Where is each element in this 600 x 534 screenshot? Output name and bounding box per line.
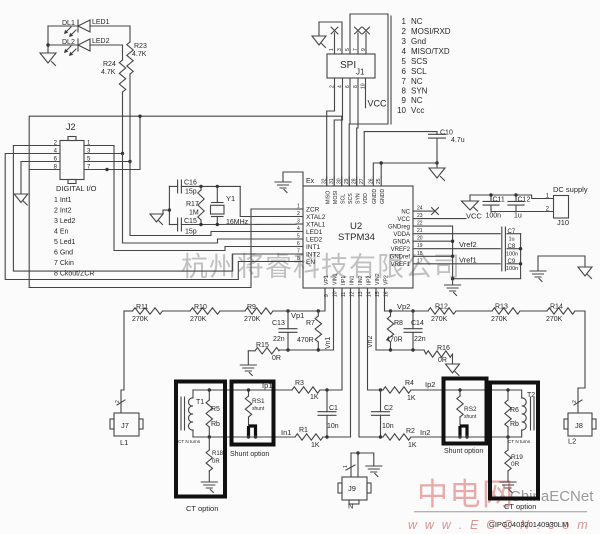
- svg-text:CT option: CT option: [186, 504, 218, 513]
- wire ZCR net: [29, 209, 296, 288]
- U2 left pin 3 XTAL1: [296, 223, 303, 225]
- svg-text:100n: 100n: [506, 251, 518, 257]
- svg-text:C2: C2: [384, 405, 393, 412]
- svg-text:R17: R17: [186, 201, 199, 208]
- wire Ip1 row: [193, 389, 292, 391]
- wire Vp1 node: [273, 288, 325, 311]
- svg-text:XTAL1: XTAL1: [306, 222, 326, 229]
- resistor R5 Rb: [208, 390, 210, 400]
- resistor R6 Rb: [507, 390, 509, 400]
- wire GNDD pins to ground: [373, 163, 437, 177]
- svg-text:Vref2: Vref2: [459, 240, 477, 249]
- U2 left pin 2 XTAL2: [296, 216, 303, 218]
- resistor R1: [295, 434, 323, 440]
- U2 bottom pin 14 IIP2: [367, 288, 369, 297]
- svg-text:Shunt option: Shunt option: [230, 451, 269, 458]
- resistor RS2: [459, 390, 461, 396]
- svg-text:270K: 270K: [491, 316, 508, 323]
- svg-text:DL1: DL1: [62, 20, 75, 27]
- wire GNDref: [420, 255, 453, 257]
- resistor R9: [220, 310, 245, 312]
- wire Vn2 row: [376, 288, 424, 350]
- wire J1 pin2: [327, 78, 335, 186]
- svg-text:CT N turns: CT N turns: [508, 439, 531, 444]
- svg-text:2: 2: [402, 27, 407, 36]
- svg-text:2 Int2: 2 Int2: [54, 208, 72, 215]
- capacitor C2: [380, 390, 382, 412]
- U2 right pin 23 VCC: [413, 218, 420, 220]
- svg-text:In1: In1: [281, 428, 291, 437]
- svg-text:VCC: VCC: [466, 211, 482, 220]
- svg-text:VP1: VP1: [324, 275, 330, 285]
- LED DL1: [48, 25, 77, 27]
- svg-text:VDD: VDD: [363, 193, 369, 204]
- svg-text:29: 29: [344, 178, 350, 184]
- shunt symbol RS2: [459, 417, 461, 425]
- connector J8: [568, 413, 592, 436]
- svg-text:R10: R10: [194, 304, 207, 311]
- U2 top pin 25 GNDD: [380, 177, 382, 186]
- connector J1 SPI: [327, 54, 375, 78]
- ground U2 top-left: [283, 172, 303, 186]
- svg-text:R15: R15: [256, 342, 269, 349]
- capacitor C14: [412, 311, 414, 329]
- svg-text:7 Ckin: 7 Ckin: [54, 260, 74, 267]
- U2 top pin 32 MISO: [326, 177, 328, 186]
- svg-text:3 Led2: 3 Led2: [54, 218, 76, 225]
- LED DL2: [48, 44, 77, 46]
- svg-text:1M: 1M: [189, 210, 199, 217]
- svg-text:270K: 270K: [190, 316, 207, 323]
- wire to J10 pin2: [491, 211, 554, 213]
- svg-text:N: N: [348, 502, 353, 511]
- svg-text:0R: 0R: [272, 355, 281, 362]
- svg-text:R7: R7: [306, 320, 315, 327]
- svg-text:5 Led1: 5 Led1: [54, 239, 76, 246]
- svg-text:R12: R12: [435, 304, 448, 311]
- svg-text:1: 1: [329, 48, 335, 51]
- transformer T2 coil: [522, 398, 527, 430]
- svg-text:R14: R14: [550, 304, 563, 311]
- svg-text:U2: U2: [350, 221, 362, 232]
- Shunt option box RS2: [444, 379, 487, 444]
- svg-text:270K: 270K: [244, 316, 261, 323]
- capacitor C9: [507, 263, 521, 265]
- wire LED common: [47, 26, 49, 52]
- ground right rail: [452, 279, 454, 284]
- svg-text:IIP2: IIP2: [366, 276, 372, 285]
- svg-text:ZCR: ZCR: [306, 207, 320, 214]
- resistor R23: [129, 26, 131, 42]
- svg-text:Vn1: Vn1: [325, 336, 332, 349]
- U2 right pin 22 GNDreg: [413, 225, 420, 227]
- svg-text:NC: NC: [411, 17, 423, 26]
- svg-text:4: 4: [402, 47, 407, 56]
- svg-text:INT1: INT1: [306, 244, 320, 251]
- wire pin5 over top: [350, 14, 388, 124]
- svg-text:RS2: RS2: [464, 406, 477, 413]
- svg-text:28: 28: [352, 178, 358, 184]
- NC stub pin9: [365, 33, 367, 54]
- capacitor C13: [287, 311, 289, 329]
- svg-text:R16: R16: [437, 345, 450, 352]
- U2 bottom pin 12 IIN1: [350, 288, 352, 297]
- wire to J8: [575, 311, 585, 413]
- svg-text:DC supply: DC supply: [553, 185, 588, 194]
- svg-text:VP2: VP2: [383, 275, 389, 285]
- svg-text:J9: J9: [348, 484, 356, 493]
- svg-text:GNDD: GNDD: [372, 188, 378, 204]
- svg-text:GNDD: GNDD: [380, 188, 386, 204]
- svg-text:100n: 100n: [486, 213, 502, 220]
- svg-text:1K: 1K: [311, 442, 320, 449]
- connector J7: [121, 311, 124, 413]
- wire J2 pin1 Int1: [84, 146, 296, 251]
- svg-text:5: 5: [345, 48, 351, 51]
- U2 right pin 19 VREF2: [413, 248, 420, 250]
- svg-text:VIN1: VIN1: [332, 273, 338, 285]
- svg-text:5: 5: [297, 234, 300, 240]
- ground J2: [14, 194, 28, 203]
- U2 top pin 28 SYN: [356, 177, 358, 186]
- svg-text:MISO/TXD: MISO/TXD: [411, 47, 450, 56]
- svg-text:1u: 1u: [514, 213, 522, 220]
- svg-text:C13: C13: [272, 320, 285, 327]
- svg-text:6 Gnd: 6 Gnd: [54, 250, 73, 257]
- svg-text:IIP1: IIP1: [341, 276, 347, 285]
- wire Ckin Ckout bus: [29, 116, 342, 287]
- svg-text:R8: R8: [394, 320, 403, 327]
- CT option box T1: [176, 382, 225, 497]
- svg-text:1K: 1K: [407, 395, 416, 402]
- svg-text:DIGITAL I/O: DIGITAL I/O: [56, 184, 97, 193]
- svg-text:T2: T2: [527, 392, 535, 399]
- svg-text:SPI: SPI: [340, 60, 356, 71]
- svg-text:C8: C8: [508, 244, 516, 250]
- svg-text:470R: 470R: [297, 337, 314, 344]
- resistor R15: [248, 350, 255, 352]
- wire crystal top rail: [201, 185, 240, 187]
- wire GNDreg rail: [420, 226, 453, 279]
- NC stub pin7: [357, 33, 359, 54]
- svg-text:J8: J8: [575, 421, 583, 430]
- svg-text:1K: 1K: [408, 442, 417, 449]
- svg-text:10: 10: [397, 106, 406, 115]
- wire J2 pin8 Ckout: [29, 169, 60, 171]
- svg-text:C11: C11: [493, 197, 505, 204]
- svg-text:VDDA: VDDA: [393, 232, 410, 238]
- svg-text:NC: NC: [401, 209, 410, 215]
- connector J10: [554, 196, 569, 219]
- svg-text:270K: 270K: [546, 316, 563, 323]
- svg-text:LED2: LED2: [92, 38, 110, 45]
- wire XTAL2: [240, 186, 296, 216]
- svg-text:7: 7: [353, 48, 359, 51]
- capacitor C1: [326, 390, 328, 412]
- svg-text:C9: C9: [508, 259, 516, 265]
- svg-text:0R: 0R: [511, 461, 520, 468]
- ground CT2: [500, 482, 516, 488]
- svg-text:8: 8: [402, 87, 407, 96]
- svg-text:R2: R2: [406, 428, 415, 435]
- svg-text:GNDA: GNDA: [393, 239, 410, 245]
- svg-text:GNDreg: GNDreg: [388, 224, 410, 230]
- svg-text:2: 2: [297, 211, 300, 217]
- svg-text:Vref1: Vref1: [459, 255, 477, 264]
- svg-text:J1: J1: [356, 68, 365, 77]
- U2 bottom pin 15 VIN2: [375, 288, 377, 297]
- resistor R24: [122, 45, 124, 60]
- svg-text:31: 31: [329, 178, 335, 184]
- svg-text:L2: L2: [568, 437, 576, 446]
- svg-text:INT2: INT2: [306, 252, 320, 259]
- resistor R10: [163, 310, 191, 312]
- svg-text:Ip2: Ip2: [425, 380, 435, 389]
- svg-text:0R: 0R: [212, 459, 220, 465]
- svg-text:VCC: VCC: [368, 99, 388, 109]
- svg-text:Y1: Y1: [226, 194, 235, 203]
- svg-text:3: 3: [297, 219, 300, 225]
- svg-text:270K: 270K: [132, 316, 149, 323]
- svg-text:R11: R11: [136, 304, 148, 311]
- svg-text:1: 1: [402, 17, 407, 26]
- svg-text:1K: 1K: [310, 394, 319, 401]
- ground R15: [247, 351, 249, 364]
- resistor R2: [383, 434, 411, 440]
- svg-text:MISO: MISO: [326, 191, 332, 204]
- svg-text:R24: R24: [103, 61, 116, 68]
- svg-text:32: 32: [322, 178, 328, 184]
- resistor R14: [520, 310, 547, 312]
- capacitor C10: [436, 132, 438, 135]
- Shunt option box RS1: [232, 382, 274, 445]
- resistor R18: [208, 437, 210, 450]
- resistor R3: [292, 387, 320, 393]
- svg-text:R3: R3: [295, 380, 304, 387]
- svg-text:NC: NC: [411, 96, 423, 105]
- U2 left pin 7 INT2: [296, 253, 303, 255]
- ground R16: [452, 354, 454, 363]
- label J1 pin list: [390, 16, 392, 124]
- svg-text:25: 25: [376, 178, 382, 184]
- wire Ip2 row: [368, 288, 384, 390]
- svg-text:0R: 0R: [438, 357, 447, 364]
- U2 left pin 5 LED2: [296, 238, 303, 240]
- svg-text:SCS: SCS: [411, 57, 427, 66]
- svg-text:VREF2: VREF2: [391, 247, 411, 253]
- U2 top pin 27 VDD: [363, 177, 365, 186]
- svg-text:Shunt option: Shunt option: [444, 448, 483, 455]
- U2 top pin 31 MOSI: [333, 177, 335, 186]
- ground SPI: [312, 36, 326, 45]
- power VCC symbol: [470, 195, 554, 201]
- svg-text:shunt: shunt: [252, 406, 265, 412]
- svg-text:9: 9: [361, 48, 367, 51]
- svg-text:EN: EN: [306, 259, 315, 266]
- wire VCC pin23: [420, 218, 466, 220]
- svg-text:Vp2: Vp2: [397, 302, 410, 311]
- svg-text:R5: R5: [211, 406, 220, 413]
- svg-text:1 Int1: 1 Int1: [54, 197, 72, 204]
- svg-text:5: 5: [402, 57, 407, 66]
- wire LED2 net to U2: [123, 154, 297, 244]
- connector J9: [350, 453, 352, 477]
- svg-text:22n: 22n: [273, 336, 285, 343]
- svg-text:6: 6: [297, 241, 300, 247]
- wire J1 pin10 VCC: [365, 78, 367, 108]
- wire J2 pin3 Led2: [84, 153, 123, 155]
- svg-text:R19: R19: [511, 454, 523, 461]
- ground LED: [40, 53, 56, 63]
- svg-text:NC: NC: [411, 77, 423, 86]
- svg-text:XTAL2: XTAL2: [306, 214, 326, 221]
- svg-text:SCL: SCL: [341, 194, 347, 204]
- U2 right pin 18 GNDref: [413, 255, 420, 257]
- wire J1 pin8: [357, 78, 358, 186]
- svg-text:VCC: VCC: [397, 217, 410, 223]
- svg-text:J7: J7: [121, 421, 129, 430]
- svg-text:L1: L1: [120, 438, 128, 447]
- svg-text:Ex: Ex: [306, 178, 315, 185]
- svg-text:STPM34: STPM34: [338, 232, 375, 243]
- wire J2 pin2 Int2: [13, 146, 296, 272]
- svg-text:1u: 1u: [509, 236, 515, 242]
- svg-text:shunt: shunt: [464, 414, 477, 420]
- svg-text:6: 6: [402, 67, 407, 76]
- svg-text:C16: C16: [184, 180, 197, 187]
- svg-text:SYN: SYN: [411, 87, 428, 96]
- U2 bottom pin 10 VIN1: [333, 288, 335, 297]
- U2 bottom pin 16 VP2: [384, 288, 386, 297]
- wire J2 pin5 Led1: [84, 161, 130, 163]
- svg-text:LED1: LED1: [92, 19, 110, 26]
- svg-text:C7: C7: [508, 229, 516, 235]
- svg-text:10n: 10n: [327, 423, 339, 430]
- wire J1 pin6: [348, 78, 351, 186]
- capacitor C12: [515, 195, 517, 201]
- svg-text:DL2: DL2: [62, 39, 75, 46]
- svg-text:VREF1: VREF1: [391, 262, 411, 268]
- U2 left pin 6 INT1: [296, 246, 303, 248]
- ground J9: [366, 466, 382, 472]
- ground crystal: [163, 210, 169, 213]
- svg-text:15p: 15p: [185, 229, 197, 236]
- capacitor C11: [490, 195, 492, 201]
- svg-text:Vcc: Vcc: [411, 106, 424, 115]
- wire VDD from VCC rail: [364, 132, 437, 177]
- svg-text:7: 7: [402, 77, 407, 86]
- wire GNDA: [420, 240, 453, 242]
- svg-text:8: 8: [297, 256, 300, 262]
- wire J2 pin7 Ckin: [84, 116, 140, 169]
- U2 left pin 1 ZCR: [296, 208, 303, 210]
- svg-text:2: 2: [572, 400, 578, 403]
- wire VDDA: [420, 233, 500, 235]
- U2 right pin 20 GNDA: [413, 240, 420, 242]
- svg-text:9: 9: [402, 96, 407, 105]
- svg-text:GIPG040320140930LM: GIPG040320140930LM: [489, 520, 568, 529]
- svg-text:1: 1: [297, 204, 300, 210]
- resistor R13: [456, 310, 492, 312]
- svg-text:LED1: LED1: [306, 229, 323, 236]
- U2 bottom pin 13 IIN2: [358, 288, 360, 297]
- svg-text:4.7u: 4.7u: [451, 137, 465, 144]
- wire In2 row: [359, 288, 383, 437]
- svg-text:VIN2: VIN2: [375, 273, 381, 285]
- capacitor C7: [502, 227, 506, 271]
- svg-text:In2: In2: [420, 428, 430, 437]
- svg-text:R4: R4: [405, 380, 414, 387]
- resistor RS1: [248, 390, 250, 396]
- wire Vn1 row: [279, 288, 334, 350]
- transformer T2 core: [531, 397, 535, 430]
- U2 left pin 4 LED1: [296, 231, 303, 233]
- resistor R7: [317, 311, 319, 316]
- resistor chain left: R11: [124, 310, 133, 312]
- svg-text:2: 2: [115, 400, 121, 403]
- wire In1 row: [193, 436, 295, 438]
- U2 right pin 21 VDDA: [413, 233, 420, 235]
- svg-text:R13: R13: [495, 304, 508, 311]
- svg-text:R9: R9: [247, 304, 256, 311]
- svg-text:Rb: Rb: [211, 421, 220, 428]
- svg-text:J2: J2: [66, 122, 76, 132]
- resistor chain right: R12: [428, 308, 456, 314]
- svg-text:IIN1: IIN1: [349, 275, 355, 285]
- NC mark pin24: [420, 210, 433, 212]
- svg-text:470R: 470R: [386, 337, 403, 344]
- svg-text:270K: 270K: [431, 316, 448, 323]
- wire pin3 to ground: [319, 22, 342, 54]
- U2 right pin 24 NC: [413, 210, 420, 212]
- svg-text:4.7K: 4.7K: [132, 51, 147, 58]
- wire J1 pin4: [334, 78, 342, 186]
- svg-text:4 En: 4 En: [54, 229, 69, 236]
- svg-text:Rb: Rb: [510, 421, 519, 428]
- svg-text:R6: R6: [510, 407, 519, 414]
- crystal Y1: [216, 186, 218, 201]
- resistor R4: [383, 387, 411, 393]
- svg-text:MOSI: MOSI: [333, 191, 339, 204]
- CT option box T2: [490, 383, 538, 499]
- transformer T1 core: [181, 397, 185, 430]
- svg-text:3: 3: [337, 48, 343, 51]
- svg-text:10n: 10n: [382, 423, 394, 430]
- svg-text:Vp1: Vp1: [291, 311, 304, 320]
- capacitor C8: [507, 248, 521, 250]
- capacitor C16: [169, 185, 177, 187]
- svg-text:Gnd: Gnd: [411, 37, 426, 46]
- wire crystal left rail: [168, 186, 170, 224]
- svg-text:SCS: SCS: [348, 193, 354, 204]
- svg-text:C1: C1: [329, 405, 338, 412]
- wire J2 pin4 En: [5, 154, 296, 280]
- ground CT1: [201, 482, 217, 488]
- svg-text:IIN2: IIN2: [358, 275, 364, 285]
- U2 top pin 29 SCS: [348, 177, 350, 186]
- svg-text:C12: C12: [518, 197, 531, 204]
- svg-text:1: 1: [343, 465, 349, 468]
- wire cap rail: [453, 234, 521, 279]
- svg-text:15p: 15p: [185, 189, 197, 196]
- svg-text:C10: C10: [440, 130, 453, 137]
- ground pair right: [538, 256, 585, 270]
- svg-text:J10: J10: [557, 218, 569, 227]
- resistor R17: [200, 186, 202, 190]
- resistor R16: [424, 350, 426, 354]
- resistor R19: [507, 437, 509, 450]
- resistor R8: [390, 311, 392, 316]
